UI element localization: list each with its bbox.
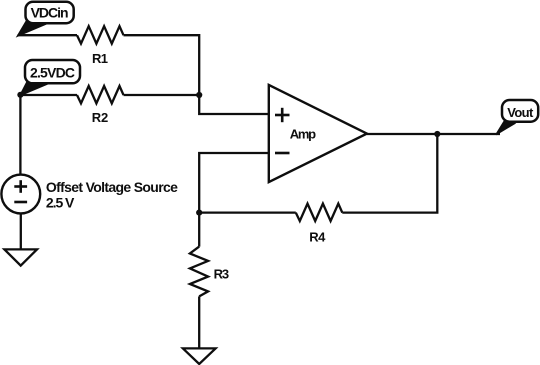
resistor R4: [296, 204, 343, 245]
svg-text:2.5VDC: 2.5VDC: [30, 65, 75, 81]
wire: [18, 34, 78, 36]
wire: [20, 94, 77, 96]
node junction -in/R3/R4: [196, 210, 202, 216]
svg-text:VDCin: VDCin: [31, 5, 69, 21]
svg-text:Offset Voltage Source: Offset Voltage Source: [46, 179, 178, 195]
wire: [124, 94, 200, 96]
node junction R2/+in: [196, 92, 202, 98]
ground: [183, 348, 216, 364]
op-amp U1 Amp: [269, 85, 367, 182]
node junction 2.5VDC/source: [17, 92, 23, 98]
wire: [20, 214, 22, 249]
resistor R3: [190, 247, 229, 297]
wire: [19, 95, 21, 174]
resistor R1: [77, 26, 124, 66]
wire: [199, 153, 269, 213]
svg-text:R1: R1: [92, 51, 108, 66]
svg-text:R2: R2: [92, 110, 109, 125]
svg-text:R4: R4: [309, 230, 326, 245]
wire: [199, 211, 296, 213]
flag Vout: [496, 100, 538, 135]
wire: [198, 296, 200, 348]
wire: [342, 134, 437, 213]
svg-text:Vout: Vout: [507, 105, 534, 120]
ground: [4, 249, 37, 265]
flag 2.5VDC: [20, 60, 80, 96]
resistor R2: [77, 86, 124, 125]
node junction out/R4: [434, 131, 440, 137]
svg-text:R3: R3: [214, 267, 230, 282]
wire: [198, 213, 200, 247]
wire: [367, 133, 500, 135]
wire: [124, 35, 269, 114]
svg-text:Amp: Amp: [290, 127, 316, 142]
voltage source V1 Offset Voltage Source: [1, 175, 178, 214]
svg-text:2.5 V: 2.5 V: [46, 194, 75, 210]
flag VDCin: [18, 2, 74, 36]
